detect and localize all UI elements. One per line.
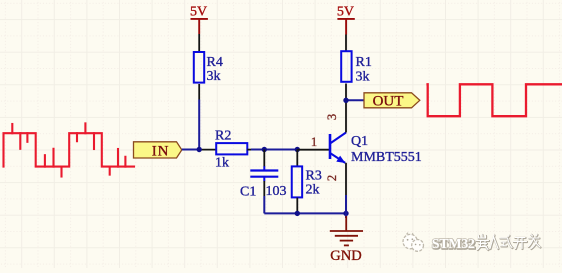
svg-text:5V: 5V	[190, 4, 207, 19]
pin (R2 right)	[247, 149, 252, 151]
pin 2 wire (emitter)	[345, 163, 347, 195]
port OUT	[364, 93, 420, 110]
resistor R1	[341, 51, 372, 84]
wire (node B to node C)	[251, 149, 297, 151]
wire (bottom rail)	[264, 212, 346, 214]
pin (R2 left)	[199, 149, 216, 151]
svg-text:1k: 1k	[215, 156, 229, 171]
svg-text:1: 1	[311, 135, 317, 149]
output clean square wave (red, right)	[426, 84, 562, 116]
resistor R4	[194, 52, 223, 84]
wire (5V to R4)	[198, 34, 200, 51]
pin 1 wire (base of Q1)	[297, 149, 330, 151]
watermark glyphs 嵌入式开发 (hand drawn)	[477, 235, 541, 251]
watermark text STM32	[432, 237, 476, 253]
wire (R4 to node A)	[198, 100, 200, 150]
svg-text:GND: GND	[330, 248, 361, 264]
svg-text:2: 2	[325, 175, 339, 181]
ground	[330, 216, 363, 245]
svg-text:R2: R2	[215, 129, 231, 144]
pin (R3 bottom)	[296, 198, 298, 214]
svg-text:R1: R1	[356, 55, 372, 70]
power port 5V (right)	[337, 4, 355, 34]
pin (R4 bottom)	[198, 84, 200, 100]
wire (C1 to bottom rail)	[263, 196, 265, 213]
svg-text:R4: R4	[207, 55, 223, 70]
svg-text:3k: 3k	[356, 70, 370, 85]
input noisy waveform (red, left)	[4, 123, 135, 176]
watermark logo (chat bubbles)	[403, 233, 424, 252]
svg-text:Q1: Q1	[351, 134, 368, 149]
svg-text:3k: 3k	[207, 69, 221, 84]
svg-text:C1: C1	[240, 185, 256, 200]
pin (R1 top)	[345, 35, 347, 51]
junction node B (C1 tap)	[262, 147, 267, 152]
capacitor C1	[240, 166, 287, 199]
svg-text:OUT: OUT	[373, 94, 404, 110]
junction node C (R3 tap)	[295, 147, 300, 152]
svg-text:STM32: STM32	[432, 237, 475, 252]
svg-text:2k: 2k	[306, 183, 320, 198]
power port 5V (left)	[190, 4, 208, 34]
pin (C1 bottom)	[263, 181, 265, 196]
pin (node C to R3)	[296, 150, 298, 167]
junction node D	[343, 98, 348, 103]
junction (emitter/GND)	[343, 211, 348, 216]
pin (R1 bottom)	[345, 84, 347, 101]
resistor R2	[215, 129, 247, 171]
resistor R3	[292, 166, 322, 197]
pin (node B to C1)	[263, 150, 265, 167]
port IN	[134, 142, 182, 160]
wire (IN to node A)	[182, 149, 200, 151]
svg-text:5V: 5V	[337, 4, 354, 19]
wire (emitter to bottom rail)	[345, 195, 347, 213]
junction node A	[197, 147, 202, 152]
svg-text:IN: IN	[152, 143, 169, 159]
svg-text:3: 3	[325, 114, 339, 120]
svg-text:103: 103	[266, 184, 287, 199]
svg-text:R3: R3	[306, 169, 322, 184]
transistor Q1	[330, 133, 422, 166]
wire (emitter to GND)	[345, 213, 347, 218]
pin 3 wire (collector)	[345, 100, 347, 132]
junction (R3/bottom rail)	[295, 211, 300, 216]
svg-text:MMBT5551: MMBT5551	[351, 150, 422, 165]
wire (node D to OUT)	[346, 99, 364, 101]
